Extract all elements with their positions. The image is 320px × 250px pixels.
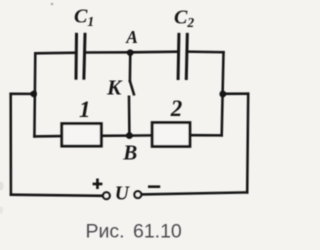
scan smudge left edge 2 — [0, 207, 3, 214]
wire: resistor row (left corner to box 1) — [34, 135, 61, 138]
switch K blade — [130, 81, 134, 94]
resistor 1 body — [62, 124, 102, 147]
right junction dot — [219, 91, 226, 98]
wire: left stub (left junction to outer-left wire) — [11, 93, 34, 96]
capacitor C2 right plate — [186, 34, 187, 78]
svg-text:1: 1 — [79, 97, 91, 122]
wire: resistor row (box 2 to right corner) — [190, 134, 222, 137]
wire: bottom-right (- terminal to bottom-right corner) — [142, 192, 247, 194]
svg-text:Рис. 61.10: Рис. 61.10 — [86, 221, 182, 243]
wire: resistor row (box 1 to node B to box 2) — [101, 134, 152, 137]
scan dust speck — [51, 3, 54, 6]
wire: outer-right vertical — [247, 94, 248, 193]
terminal circle + — [103, 192, 110, 199]
wire: inner-left vertical (top corner down to resistor row) — [33, 53, 36, 136]
svg-text:B: B — [122, 141, 137, 165]
scan smudge left edge 1 — [0, 182, 4, 191]
svg-text:A: A — [125, 27, 138, 47]
wire: bottom-left (corner to + terminal) — [11, 195, 102, 196]
capacitor C2 left plate — [177, 34, 181, 78]
plus polarity sign — [93, 183, 103, 186]
svg-text:2: 2 — [170, 96, 183, 121]
wire: top-right segment (C2 right plate to top-right corner) — [187, 50, 224, 53]
terminal circle - — [134, 191, 141, 198]
node A junction dot — [127, 49, 134, 56]
capacitor C1 left plate — [75, 34, 79, 78]
wire: inner-right vertical (top corner down to resistor row) — [222, 52, 224, 135]
capacitor C1 right plate — [84, 34, 85, 78]
wire: switch upper lead (node A down to blade pivot) — [129, 52, 132, 81]
wire: outer-left vertical — [9, 94, 12, 195]
svg-text:K: K — [106, 76, 123, 100]
svg-text:U: U — [115, 184, 130, 205]
wire: top-middle segment (C1 right plate through node A to C2 left plate) — [85, 50, 179, 53]
wire: top-left segment (corner to C1 left plate) — [35, 51, 76, 54]
minus polarity sign — [148, 185, 160, 188]
wire: switch lower lead (down to node B) — [128, 97, 131, 136]
node B junction dot — [126, 132, 133, 139]
resistor 2 body — [152, 123, 190, 147]
wire: right stub (right junction to outer-right wire) — [223, 92, 248, 95]
left junction dot — [30, 91, 37, 98]
